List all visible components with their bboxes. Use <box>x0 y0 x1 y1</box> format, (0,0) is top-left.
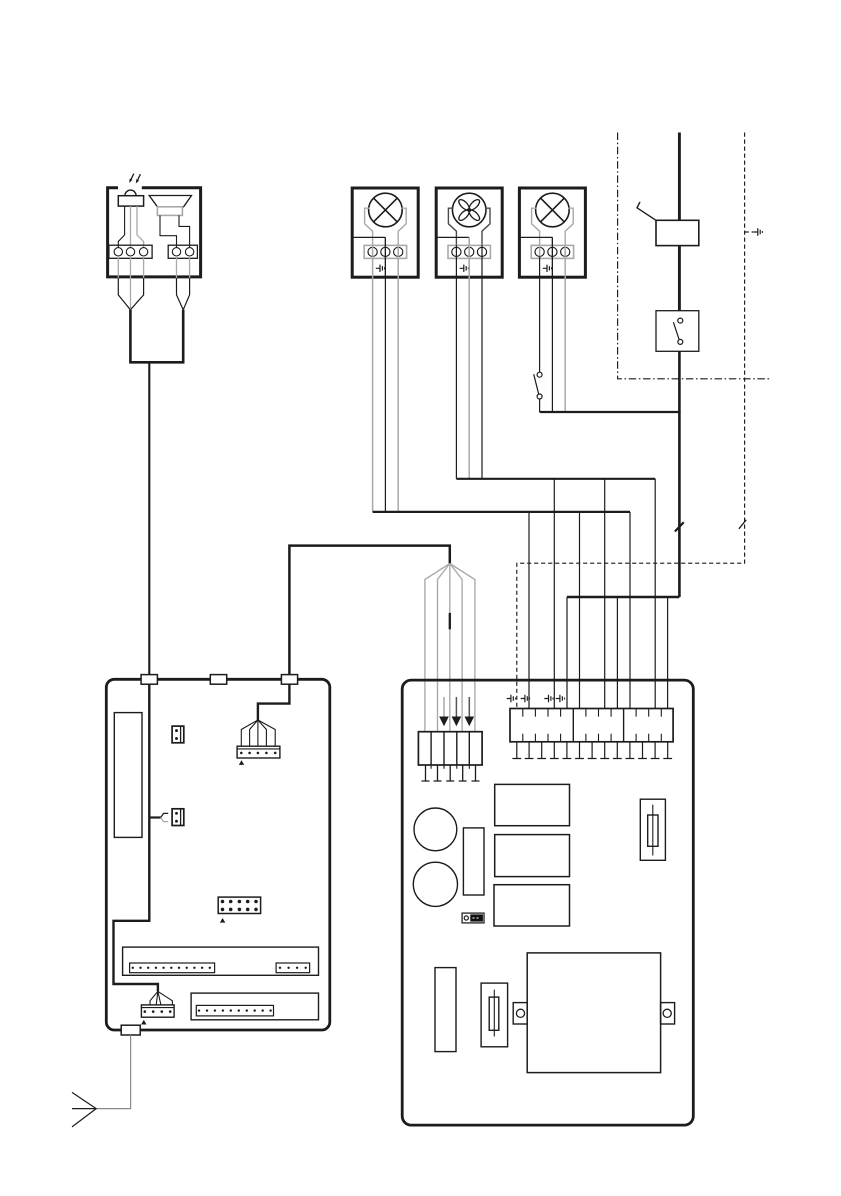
connector CN-E (2-pin) <box>172 726 184 743</box>
polarity arrows into CN-B <box>443 697 445 717</box>
connector CN-C (5-pin) <box>237 746 280 758</box>
fan M1 box <box>436 188 502 277</box>
triangle marker at CN-D <box>141 1020 146 1025</box>
door switch S1 on lamp L2 line <box>539 256 541 372</box>
triangle marker at J1 <box>220 918 225 923</box>
relay RY2 <box>495 835 570 877</box>
capacitor C1 <box>463 828 484 895</box>
connector CN-A (13 pin comb) <box>510 709 673 742</box>
wire into fan M1 <box>436 236 469 238</box>
mains line (top) <box>678 133 681 221</box>
mains line (lower) <box>567 351 679 597</box>
power PCB outline <box>402 680 693 1125</box>
antenna symbol <box>72 1092 96 1127</box>
mains line (middle) <box>678 246 681 311</box>
fan M1 wires down to bus A <box>456 245 482 479</box>
fuse F1 <box>640 799 665 860</box>
control panel unit box <box>108 188 201 277</box>
thermal cutout TC1 <box>656 220 699 245</box>
antenna wire <box>96 1035 130 1109</box>
fuse F2 <box>481 983 508 1047</box>
header J1 (2x5) <box>218 897 260 913</box>
lamp L2 box <box>519 188 585 277</box>
PCB mounting tab 3 <box>281 675 297 685</box>
earth ground symbol <box>745 231 754 233</box>
taps from mains bus to connector CN-A <box>567 597 668 709</box>
lamp L2 symbol <box>536 193 570 227</box>
pin strip 2 <box>196 1005 273 1016</box>
harness wire: control PCB to power PCB <box>289 546 449 676</box>
T1 left ear <box>513 1003 527 1024</box>
wire: plug bundle U-join <box>130 310 183 363</box>
connector CN-B (5 cell) <box>418 732 482 765</box>
lamp L2 holder <box>532 208 574 245</box>
transformer T1 <box>527 953 660 1073</box>
harness fan-out (5 wires) <box>425 564 450 733</box>
relay RY1 <box>495 784 570 825</box>
taps from bus B to connector CN-A <box>529 512 630 709</box>
bus B (lamp L1) <box>373 511 630 513</box>
ground mark in lamp L1 box <box>376 265 385 272</box>
wire into lamp L1 <box>352 236 385 238</box>
taps from bus A to connector CN-A <box>554 479 655 709</box>
terminal strip 2 (2-pin) <box>168 245 197 258</box>
edge connector block 2 <box>191 993 318 1020</box>
lamp L1 wires down to bus B <box>373 245 399 512</box>
buzzer B2 <box>413 862 457 906</box>
lamp L1 middle wire below <box>384 237 386 278</box>
lamp L2 middle wire below <box>551 237 553 278</box>
break mark on mains line <box>675 522 684 531</box>
PCB mounting tab 2 <box>210 675 226 685</box>
CN-B pins <box>422 765 430 781</box>
wires from strip 1 <box>118 256 143 279</box>
earth dashed line <box>517 133 745 709</box>
ground mark in lamp L2 box <box>543 265 552 272</box>
pin strip 1b <box>276 963 310 973</box>
wire into lamp L2 <box>519 236 552 238</box>
lamp L1 holder <box>365 208 407 245</box>
wire: harness down to control PCB <box>148 362 150 676</box>
lamp L1 symbol <box>369 193 403 227</box>
chassis boundary dash-dot line <box>618 133 771 379</box>
PCB bottom tab <box>121 1025 140 1035</box>
door switch S2 box <box>656 311 699 352</box>
wire inside control PCB from tab3 <box>258 684 290 720</box>
capacitor C2 <box>435 968 456 1052</box>
pin strip 1a <box>130 963 215 973</box>
IR arrows <box>131 174 140 180</box>
harness plug 2 <box>177 278 190 310</box>
lamp L1 terminal strip <box>364 245 406 258</box>
relay RY3 <box>494 885 570 926</box>
ground mark in fan M1 box <box>460 265 469 272</box>
display window <box>114 713 142 838</box>
wire inside control PCB from tab1 <box>114 684 158 991</box>
fan-out to connector CN-D <box>150 991 172 1005</box>
LED leads <box>118 206 124 248</box>
control PCB outline <box>106 679 329 1030</box>
terminal strip 1 (3-pin) <box>109 245 152 258</box>
edge connector block 1 <box>123 947 319 975</box>
buzzer B1 <box>414 808 457 851</box>
LED (remote sensor) <box>125 190 136 196</box>
fan M1 middle wire below <box>468 237 470 278</box>
fan M1 holder <box>448 208 490 245</box>
break mark on earth line <box>739 520 746 529</box>
splice mark on centre harness wire <box>449 613 451 629</box>
jumper/LED block <box>462 913 484 923</box>
fan-out to connector CN-C <box>241 720 275 746</box>
wires from strip 2 <box>177 256 190 279</box>
PCB mounting tab 1 <box>141 675 157 685</box>
fan symbol <box>452 193 486 227</box>
connector CN-F (2-pin) with wire fork <box>149 816 160 818</box>
lamp L1 box <box>352 188 418 277</box>
bus from lamp L2 / switch to mains line <box>540 411 681 413</box>
ground marks above CN-A <box>507 695 516 702</box>
fan M1 terminal strip <box>448 245 490 258</box>
T1 right ear <box>661 1003 675 1024</box>
triangle marker at CN-C <box>239 760 244 765</box>
harness plug 1 <box>118 278 143 310</box>
speaker <box>149 196 191 207</box>
CN-A pins <box>512 742 521 759</box>
lamp L2 terminal strip <box>531 245 573 258</box>
speaker leads <box>160 215 177 248</box>
lamp L2 wires down <box>539 245 541 258</box>
bus A (fan M1) <box>456 478 655 480</box>
connector CN-D (4-pin) <box>141 1005 174 1017</box>
